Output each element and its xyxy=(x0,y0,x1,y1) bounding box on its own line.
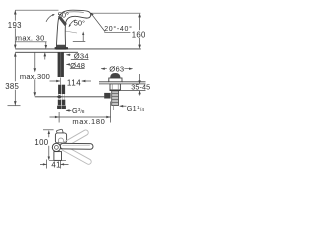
svg-text:385: 385 xyxy=(5,82,19,91)
svg-text:50°: 50° xyxy=(58,10,69,19)
svg-text:Ø34: Ø34 xyxy=(74,52,89,61)
svg-text:max. 30: max. 30 xyxy=(16,34,45,43)
svg-text:114: 114 xyxy=(67,78,81,87)
svg-text:41: 41 xyxy=(51,160,60,169)
svg-text:Ø48: Ø48 xyxy=(70,61,85,70)
svg-text:max.180: max.180 xyxy=(72,117,105,126)
svg-text:Ø63: Ø63 xyxy=(109,65,124,74)
svg-text:max.300: max.300 xyxy=(20,72,50,81)
svg-text:193: 193 xyxy=(8,21,22,30)
svg-text:35-45: 35-45 xyxy=(131,83,150,92)
svg-text:20°-40°: 20°-40° xyxy=(104,25,132,33)
svg-text:50°: 50° xyxy=(74,19,85,28)
svg-text:160: 160 xyxy=(132,30,146,39)
svg-text:100: 100 xyxy=(34,138,48,147)
